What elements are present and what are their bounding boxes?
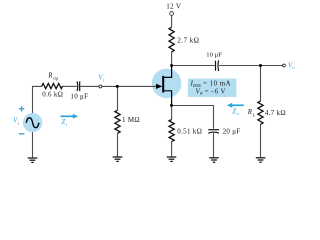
svg-text:o: o — [237, 111, 240, 116]
svg-text:0.6 kΩ: 0.6 kΩ — [42, 91, 63, 99]
svg-text:10 μF: 10 μF — [206, 52, 222, 59]
svg-text:4.7 kΩ: 4.7 kΩ — [265, 109, 286, 117]
svg-text:2.7 kΩ: 2.7 kΩ — [177, 37, 199, 45]
svg-text:L: L — [252, 112, 256, 117]
svg-text:s: s — [17, 120, 19, 125]
svg-text:sig: sig — [53, 76, 59, 81]
svg-text:o: o — [292, 65, 295, 70]
svg-text:1 MΩ: 1 MΩ — [122, 116, 140, 124]
svg-text:i: i — [103, 77, 105, 82]
svg-text:12 V: 12 V — [166, 2, 182, 10]
svg-text:20 μF: 20 μF — [223, 128, 241, 136]
svg-text:0.51 kΩ: 0.51 kΩ — [177, 128, 202, 136]
svg-text:10 μF: 10 μF — [70, 92, 88, 100]
svg-text:i: i — [66, 122, 68, 127]
